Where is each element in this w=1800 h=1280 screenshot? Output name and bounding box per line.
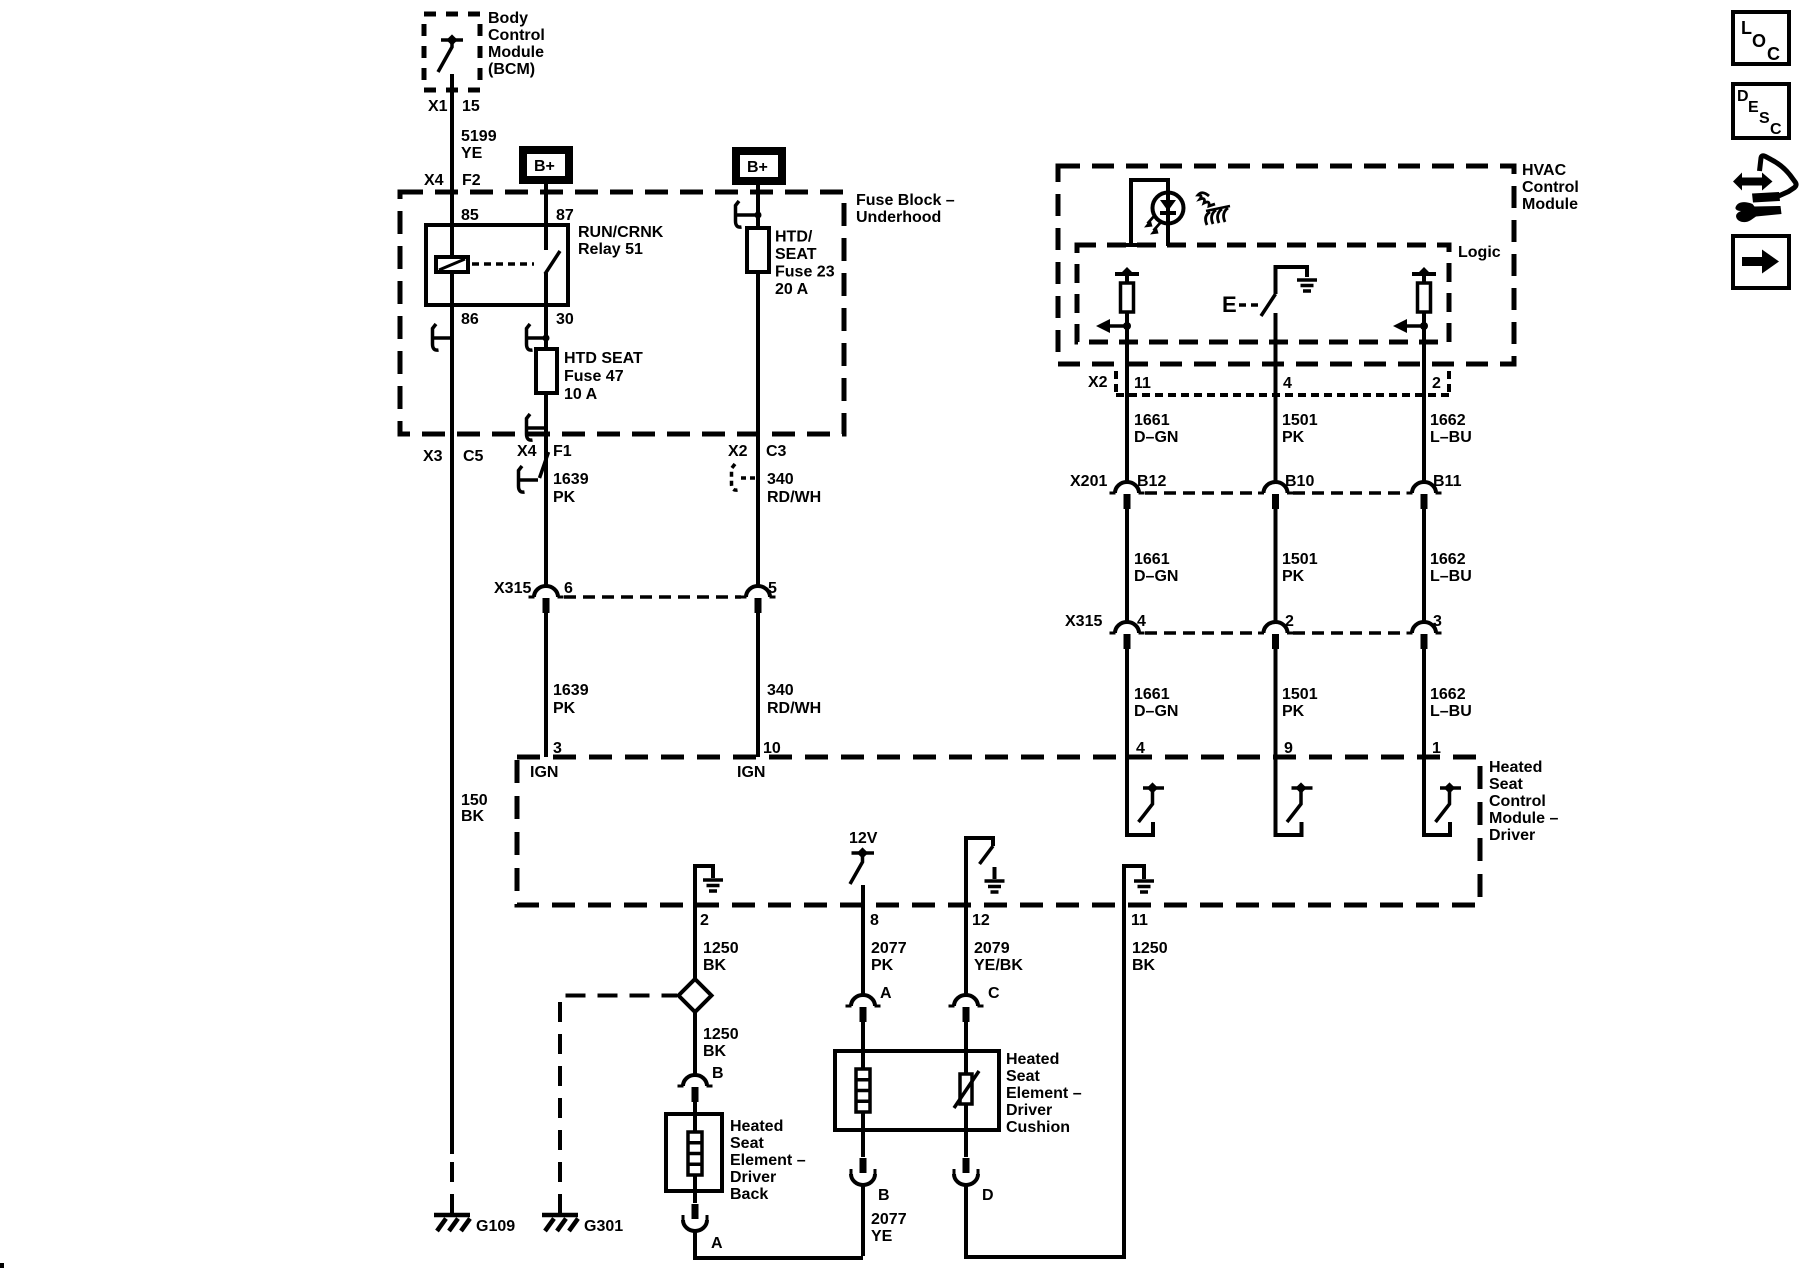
svg-text:HVAC: HVAC <box>1522 162 1567 179</box>
sidebar icon next arrow <box>1733 236 1789 288</box>
heating element (driver back) <box>688 1132 702 1175</box>
svg-text:12V: 12V <box>849 830 878 847</box>
wire label 1662 L-BU (row 2) <box>1430 551 1472 585</box>
node X2 pin C3 <box>728 443 787 460</box>
svg-text:Driver: Driver <box>1489 827 1535 844</box>
svg-text:Seat: Seat <box>730 1135 764 1152</box>
svg-text:2: 2 <box>1432 375 1441 392</box>
wire: 1639 PK upper segment <box>544 434 548 586</box>
connector jog at X4 F1 <box>540 452 549 478</box>
svg-text:5199: 5199 <box>461 128 497 145</box>
svg-text:1662: 1662 <box>1430 412 1466 429</box>
svg-text:1661: 1661 <box>1134 686 1170 703</box>
node X3 pin C5 <box>423 448 484 465</box>
wire: HVAC pin 2 output <box>1422 326 1426 482</box>
wire label 1501 PK (row 3) <box>1282 686 1318 720</box>
svg-text:Control: Control <box>488 27 545 44</box>
svg-text:YE: YE <box>871 1228 893 1245</box>
svg-text:A: A <box>711 1235 723 1252</box>
wire: 1250 BK from pin 2 to splice <box>693 905 697 979</box>
HSCM switch pin 9 <box>1276 757 1313 835</box>
svg-text:BK: BK <box>703 1043 727 1060</box>
wire label 1662 L-BU (row 3) <box>1430 686 1472 720</box>
svg-text:Underhood: Underhood <box>856 209 941 226</box>
svg-text:Control: Control <box>1522 179 1579 196</box>
svg-text:D–GN: D–GN <box>1134 703 1178 720</box>
wire: 1250 BK from pin 11 to bottom <box>1122 905 1126 1259</box>
wire: 1661 D-GN lower segment <box>1125 649 1129 757</box>
wire label 2077 YE <box>871 1211 907 1245</box>
relay coil <box>436 257 468 272</box>
relay RUN/CRNK Relay 51 box <box>426 225 568 305</box>
wire: fuse 47 to X4 F1 <box>544 393 548 434</box>
back element label <box>730 1118 806 1203</box>
ground G109 <box>434 1215 470 1231</box>
svg-text:2079: 2079 <box>974 940 1010 957</box>
svg-text:HTD SEAT: HTD SEAT <box>564 350 643 367</box>
svg-text:L: L <box>1741 18 1752 38</box>
connector C (cushion element, pin 12 wire) <box>949 995 984 1022</box>
svg-text:X4: X4 <box>424 172 444 189</box>
wire label 150 BK <box>461 792 488 825</box>
wire: connector B to bottom junction <box>861 1185 865 1256</box>
logic sensor resistor (left) <box>1096 267 1139 333</box>
svg-text:10: 10 <box>763 740 781 757</box>
connector A (cushion element, pin 8 wire) <box>846 995 881 1022</box>
connector A (driver back element) <box>683 1204 707 1231</box>
svg-text:B: B <box>712 1065 724 1082</box>
wire label 340 RD/WH <box>767 471 821 506</box>
HSCM label <box>1489 759 1558 844</box>
BCM internal switch <box>438 34 463 72</box>
svg-text:1661: 1661 <box>1134 551 1170 568</box>
wire: connector D to pin 11 wire <box>966 1185 1126 1257</box>
node X4 pin F2 <box>424 172 481 189</box>
splice diamond <box>679 979 712 1012</box>
sidebar icon wiring harness arrow <box>1733 156 1796 222</box>
svg-text:3: 3 <box>1433 613 1442 630</box>
svg-text:2: 2 <box>1285 613 1294 630</box>
Fuse Block label <box>856 192 955 226</box>
svg-text:150: 150 <box>461 792 488 809</box>
HVAC label <box>1522 162 1579 213</box>
svg-text:1250: 1250 <box>703 940 739 957</box>
logic switch ground <box>1297 280 1317 291</box>
sidebar icon LOC <box>1733 12 1789 64</box>
svg-text:87: 87 <box>556 207 574 224</box>
svg-text:11: 11 <box>1134 375 1151 392</box>
svg-text:Driver: Driver <box>1006 1102 1052 1119</box>
wire: 340 RD/WH lower segment <box>756 613 760 757</box>
svg-text:Heated: Heated <box>1006 1051 1059 1068</box>
svg-text:2: 2 <box>700 912 709 929</box>
svg-text:SEAT: SEAT <box>775 246 817 263</box>
svg-text:2077: 2077 <box>871 1211 907 1228</box>
HSCM pin 2 internal ground <box>695 866 713 905</box>
svg-text:4: 4 <box>1283 375 1292 392</box>
svg-text:B12: B12 <box>1137 473 1166 490</box>
wire into back element <box>693 1102 697 1132</box>
connector X315 pin 5 <box>741 586 776 613</box>
wire label 2079 YE/BK <box>974 940 1023 974</box>
svg-text:11: 11 <box>1131 912 1148 929</box>
svg-text:C: C <box>1767 44 1780 64</box>
svg-text:PK: PK <box>1282 703 1305 720</box>
LED indicator <box>1144 193 1184 235</box>
svg-text:D–GN: D–GN <box>1134 568 1178 585</box>
svg-text:Fuse Block –: Fuse Block – <box>856 192 955 209</box>
fuse HTD SEAT Fuse 47 10 A <box>536 349 557 393</box>
svg-text:L–BU: L–BU <box>1430 568 1472 585</box>
svg-text:F1: F1 <box>553 443 572 460</box>
heating element (driver cushion) <box>856 1069 870 1112</box>
svg-text:Cushion: Cushion <box>1006 1119 1070 1136</box>
Heated Seat Control Module - Driver dashed box <box>517 757 1480 905</box>
svg-text:X315: X315 <box>1065 613 1102 630</box>
svg-text:1501: 1501 <box>1282 686 1318 703</box>
svg-text:X201: X201 <box>1070 473 1107 490</box>
svg-text:PK: PK <box>871 957 894 974</box>
svg-text:340: 340 <box>767 471 794 488</box>
cushion element label <box>1006 1051 1082 1136</box>
wire: splice to connector B <box>693 1012 697 1075</box>
svg-text:Driver: Driver <box>730 1169 776 1186</box>
wire label 1662 L-BU (row 1) <box>1430 412 1472 446</box>
svg-text:(BCM): (BCM) <box>488 61 535 78</box>
relay switch contact <box>545 251 560 274</box>
svg-text:C: C <box>1770 121 1782 138</box>
HSCM switch pin 1 <box>1424 757 1461 835</box>
svg-text:Seat: Seat <box>1006 1068 1040 1085</box>
svg-text:Fuse 23: Fuse 23 <box>775 264 835 281</box>
wire label 1661 D-GN (row 3) <box>1134 686 1178 720</box>
svg-text:1639: 1639 <box>553 682 589 699</box>
wire: B+ to relay pin 87 <box>544 184 548 250</box>
svg-text:YE: YE <box>461 145 483 162</box>
wire label 1661 D-GN (row 1) <box>1134 412 1178 446</box>
HSCM pin 12 internal switch to ground <box>966 838 995 905</box>
wire label 5199 YE <box>461 128 497 162</box>
HSCM pin 11 internal ground <box>1124 866 1144 905</box>
wire label 1639 PK <box>553 471 589 506</box>
svg-text:E: E <box>1748 99 1759 116</box>
svg-text:30: 30 <box>556 311 574 328</box>
svg-text:IGN: IGN <box>530 764 558 781</box>
svg-text:12: 12 <box>972 912 990 929</box>
svg-text:C3: C3 <box>766 443 787 460</box>
wire: 1662 L-BU mid segment <box>1422 509 1426 622</box>
wire label 1639 PK (lower) <box>553 682 589 717</box>
heated seat icon <box>1198 193 1230 225</box>
svg-text:D–GN: D–GN <box>1134 429 1178 446</box>
wire into cushion element <box>861 1022 865 1069</box>
svg-text:IGN: IGN <box>737 764 765 781</box>
svg-text:1: 1 <box>1432 740 1441 757</box>
B+ power symbol (left) <box>523 150 569 180</box>
svg-text:Control: Control <box>1489 793 1546 810</box>
wire label 1501 PK (row 2) <box>1282 551 1318 585</box>
wire label 1250 BK (pin 2) <box>703 940 739 974</box>
connector X2 bracket <box>1116 371 1449 395</box>
svg-text:B+: B+ <box>534 158 555 175</box>
svg-text:S: S <box>1759 110 1770 127</box>
dashed link X315 row <box>1145 631 1406 635</box>
Heated Seat Element - Driver Cushion box <box>835 1051 999 1130</box>
wire label 1250 BK (pin 11) <box>1132 940 1168 974</box>
wire label 1501 PK (row 1) <box>1282 412 1318 446</box>
svg-text:Relay 51: Relay 51 <box>578 241 643 258</box>
wire: 1501 PK lower segment <box>1274 649 1278 757</box>
svg-text:4: 4 <box>1137 613 1146 630</box>
wire: HVAC pin 4 output <box>1274 313 1278 482</box>
svg-text:D: D <box>982 1187 994 1204</box>
svg-text:1501: 1501 <box>1282 412 1318 429</box>
wire label 1661 D-GN (row 2) <box>1134 551 1178 585</box>
wire: 150 BK from fuse block to ground (solid part) <box>450 434 454 1154</box>
wire: relay pin 30 down <box>544 273 548 349</box>
svg-text:4: 4 <box>1136 740 1145 757</box>
Fuse Block - Underhood dashed box <box>400 192 844 434</box>
wire: dashed drop to G109 <box>450 1152 454 1214</box>
svg-text:X4: X4 <box>517 443 537 460</box>
svg-text:8: 8 <box>870 912 879 929</box>
connector B (cushion element bottom) <box>851 1158 875 1185</box>
svg-text:L–BU: L–BU <box>1430 703 1472 720</box>
HSCM pin 8 internal 12V switch <box>850 847 874 905</box>
connector X201 pin B10 <box>1258 482 1293 509</box>
svg-text:X1: X1 <box>428 98 448 115</box>
connector D (cushion element bottom) <box>954 1158 978 1185</box>
wire: HVAC pin 11 output <box>1125 326 1129 482</box>
svg-text:PK: PK <box>553 489 576 506</box>
svg-text:340: 340 <box>767 682 794 699</box>
svg-text:C: C <box>988 985 1000 1002</box>
Heated Seat Element - Driver Back box <box>666 1114 722 1191</box>
svg-text:9: 9 <box>1284 740 1293 757</box>
dashed inline connector at X2 C3 <box>732 464 758 490</box>
svg-text:PK: PK <box>553 700 576 717</box>
wire: 2079 YE/BK from pin 12 <box>964 905 968 995</box>
wire: connector A to 2077 YE junction <box>695 1231 863 1258</box>
svg-text:Body: Body <box>488 10 528 27</box>
svg-text:1661: 1661 <box>1134 412 1170 429</box>
svg-text:B10: B10 <box>1285 473 1314 490</box>
ground G301 <box>542 1215 578 1231</box>
svg-text:X2: X2 <box>1088 374 1108 391</box>
svg-text:15: 15 <box>462 98 480 115</box>
dashed branch to G301 <box>560 996 677 1215</box>
inline connector below fuse 47 <box>527 414 547 440</box>
node X1 pin 15 <box>428 98 480 115</box>
dashed link X315 row <box>564 595 741 599</box>
svg-text:BK: BK <box>1132 957 1156 974</box>
svg-text:20 A: 20 A <box>775 281 809 298</box>
svg-text:E: E <box>1222 292 1237 317</box>
svg-text:1250: 1250 <box>1132 940 1168 957</box>
wire: back element to connector A <box>693 1175 697 1203</box>
BCM label <box>488 10 545 78</box>
HVAC Control Module dashed box <box>1058 166 1514 364</box>
wire: BCM output, circuit 5199 YE <box>450 74 454 192</box>
Logic dashed box <box>1077 245 1449 342</box>
svg-text:X315: X315 <box>494 580 531 597</box>
wire label 1250 BK (below splice) <box>703 1026 739 1060</box>
B+ power symbol (right) <box>736 151 782 181</box>
connector B (driver back element) <box>678 1075 713 1102</box>
dashed link X201 row <box>1145 491 1406 495</box>
svg-text:B11: B11 <box>1433 473 1462 490</box>
corner speck <box>0 1263 4 1268</box>
svg-text:85: 85 <box>461 207 479 224</box>
relay label <box>578 224 664 258</box>
svg-text:B+: B+ <box>747 159 768 176</box>
svg-text:HTD/: HTD/ <box>775 229 813 246</box>
wire: 1639 PK lower segment <box>544 613 548 757</box>
svg-text:G301: G301 <box>584 1218 623 1235</box>
wire: BCM wire through relay coil <box>450 192 454 434</box>
svg-text:10 A: 10 A <box>564 386 598 403</box>
svg-text:1250: 1250 <box>703 1026 739 1043</box>
svg-text:Logic: Logic <box>1458 244 1501 261</box>
svg-text:G109: G109 <box>476 1218 515 1235</box>
svg-text:Fuse 47: Fuse 47 <box>564 368 624 385</box>
inline connector above fuse 23 <box>736 201 756 227</box>
svg-text:1639: 1639 <box>553 471 589 488</box>
connector X315 pin 2 <box>1258 622 1293 649</box>
node X4 pin F1 <box>517 443 572 460</box>
svg-text:X2: X2 <box>728 443 748 460</box>
fuse HTD/SEAT Fuse 23 20 A <box>747 228 769 272</box>
wire: B+ to fuse 23 <box>756 185 760 228</box>
connector X201 pin B11 <box>1407 482 1442 509</box>
svg-text:X3: X3 <box>423 448 443 465</box>
wire: 2077 PK from pin 8 <box>861 905 865 995</box>
svg-text:6: 6 <box>564 580 573 597</box>
connector X201 pin B12 <box>1110 482 1145 509</box>
svg-text:Element –: Element – <box>1006 1085 1082 1102</box>
wire: fuse 23 to X2 C3 <box>756 272 760 586</box>
svg-text:Element –: Element – <box>730 1152 806 1169</box>
wire label 340 RD/WH (lower) <box>767 682 821 717</box>
svg-text:RD/WH: RD/WH <box>767 700 821 717</box>
svg-text:RUN/CRNK: RUN/CRNK <box>578 224 664 241</box>
svg-text:Heated: Heated <box>1489 759 1542 776</box>
svg-text:BK: BK <box>461 808 485 825</box>
logic switch with E input <box>1239 265 1307 316</box>
connector X315 pin 4 <box>1110 622 1145 649</box>
svg-text:86: 86 <box>461 311 479 328</box>
wire into cushion element (right) <box>964 1022 968 1074</box>
svg-text:1662: 1662 <box>1430 686 1466 703</box>
wire label 2077 PK <box>871 940 907 974</box>
svg-text:C5: C5 <box>463 448 484 465</box>
svg-text:A: A <box>880 985 892 1002</box>
svg-text:1662: 1662 <box>1430 551 1466 568</box>
svg-text:Seat: Seat <box>1489 776 1523 793</box>
wire: 1661 D-GN mid segment <box>1125 509 1129 622</box>
svg-text:PK: PK <box>1282 429 1305 446</box>
svg-text:Heated: Heated <box>730 1118 783 1135</box>
connector X315 pin 3 <box>1407 622 1442 649</box>
svg-text:1501: 1501 <box>1282 551 1318 568</box>
svg-text:Back: Back <box>730 1186 768 1203</box>
wire: 1662 L-BU lower segment <box>1422 649 1426 757</box>
svg-text:2077: 2077 <box>871 940 907 957</box>
LED indicator wire frame <box>1131 180 1168 246</box>
svg-text:5: 5 <box>768 580 777 597</box>
logic sensor resistor (right) <box>1393 267 1436 333</box>
Body Control Module (BCM) dashed box <box>424 14 480 90</box>
relay coil-contact dashed link <box>472 262 534 266</box>
svg-text:F2: F2 <box>462 172 481 189</box>
svg-text:Module: Module <box>1522 196 1578 213</box>
svg-text:BK: BK <box>703 957 727 974</box>
svg-text:O: O <box>1752 31 1766 51</box>
inline connector below relay pin 86 <box>433 324 453 350</box>
HSCM switch pin 4 <box>1127 757 1164 835</box>
wire: 1501 PK mid segment <box>1274 509 1278 622</box>
connector X315 pin 6 <box>529 586 564 613</box>
wire: cushion element to connector B <box>861 1112 865 1157</box>
svg-text:3: 3 <box>553 740 562 757</box>
svg-text:Module: Module <box>488 44 544 61</box>
svg-text:B: B <box>878 1187 890 1204</box>
svg-text:D: D <box>1737 88 1749 105</box>
inline connector below relay pin 30 <box>527 324 547 350</box>
svg-text:YE/BK: YE/BK <box>974 957 1023 974</box>
temperature sensor (thermistor) <box>954 1051 979 1157</box>
svg-text:PK: PK <box>1282 568 1305 585</box>
svg-text:RD/WH: RD/WH <box>767 489 821 506</box>
svg-text:Module –: Module – <box>1489 810 1558 827</box>
svg-text:L–BU: L–BU <box>1430 429 1472 446</box>
sidebar icon DESC <box>1733 84 1789 138</box>
